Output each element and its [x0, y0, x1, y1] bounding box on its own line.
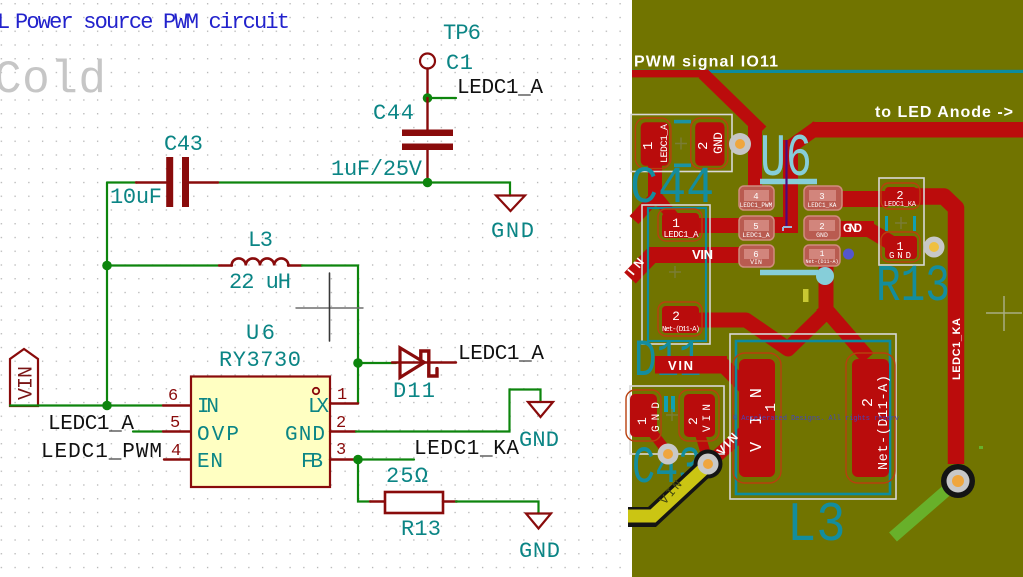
svg-text:Net-(D11-A): Net-(D11-A)	[805, 259, 838, 265]
svg-text:1uF/25V: 1uF/25V	[331, 157, 423, 182]
D11 pad 2 clearance	[658, 302, 702, 336]
trace U6 pad5 riser to anode	[770, 217, 798, 233]
svg-text:2: 2	[696, 142, 712, 150]
L3 pad 2 clearance	[846, 353, 895, 483]
trace Y right to D11 pad1	[656, 196, 674, 218]
svg-text:LX: LX	[308, 396, 329, 419]
via A	[658, 444, 679, 465]
ground GND2 symbol	[528, 402, 553, 417]
svg-text:4: 4	[171, 442, 181, 461]
junction diode tap	[353, 358, 363, 368]
svg-text:2: 2	[672, 309, 680, 324]
wire L3 right down to LX	[302, 266, 358, 404]
capacitor C43 left pin	[136, 181, 166, 183]
svg-text:Power source PWM circuit: Power source PWM circuit	[15, 10, 290, 35]
C44 pad 1 clearance	[635, 118, 671, 169]
svg-text:GND: GND	[519, 428, 559, 453]
L3 fab outline	[736, 341, 890, 494]
resistor R13 left pin	[370, 500, 385, 502]
via B black ring	[694, 450, 723, 479]
svg-text:L3: L3	[787, 493, 845, 557]
yellow trace VIN	[628, 463, 710, 516]
svg-text:2: 2	[819, 222, 824, 232]
svg-text:R13: R13	[401, 517, 441, 542]
svg-text:LEDC1_PWM: LEDC1_PWM	[41, 441, 162, 464]
svg-text:LEDC1_A: LEDC1_A	[742, 232, 769, 239]
wire to diode anode	[358, 362, 396, 364]
C44 pad 1	[641, 122, 669, 166]
R13 pad 1	[885, 236, 917, 259]
trace Y left exit	[634, 196, 656, 220]
svg-text:Cold: Cold	[0, 54, 106, 106]
trace D11 pad1 to U6 pad5	[690, 218, 750, 233]
trace LX to L3 pad2	[822, 305, 868, 358]
svg-text:to LED Anode ->: to LED Anode ->	[875, 104, 1013, 121]
trace LX net V to D11 pad2	[701, 266, 826, 349]
D11 pad 1 clearance	[658, 209, 702, 241]
trace PWM vertical to pad4	[748, 124, 762, 198]
svg-text:LEDC1_A: LEDC1_A	[664, 230, 700, 240]
trace green bottom right	[893, 477, 962, 537]
component U6 body	[191, 377, 330, 488]
trace R13 pad2 to LEDC1_KA drop	[912, 197, 956, 465]
cursor crosshair	[296, 307, 363, 309]
pin 5 line	[163, 430, 191, 432]
svg-text:R13: R13	[876, 258, 950, 317]
capacitor C44 bottom pin	[426, 150, 428, 183]
svg-text:TP6: TP6	[443, 21, 481, 46]
diode D11 lead line	[392, 361, 456, 363]
trace PWM top band	[632, 70, 708, 77]
svg-text:3: 3	[336, 441, 346, 460]
svg-text:VIN: VIN	[668, 358, 693, 373]
junction at TP6	[423, 93, 433, 103]
testpoint pin	[426, 69, 428, 99]
U6 pad 1	[804, 245, 840, 266]
trace U6 pad2 GND to R13 pad1	[836, 221, 874, 237]
junction VIN	[102, 401, 112, 411]
resistor R13 right pin	[443, 500, 457, 502]
svg-text:RY3730: RY3730	[219, 348, 301, 373]
trace C43 pad1 to via A	[649, 428, 668, 453]
svg-text:VIN: VIN	[702, 404, 714, 432]
inductor L3 coils	[232, 258, 289, 265]
svg-text:GND: GND	[711, 132, 726, 154]
U6 pad 5	[739, 216, 774, 240]
svg-text:C1: C1	[446, 51, 473, 76]
junction C44 bottom	[423, 178, 433, 188]
C44 pad 2	[695, 122, 724, 166]
R13 pad 2 clearance	[881, 183, 920, 209]
pin1 indicator circle	[313, 388, 319, 394]
pin 2 line	[330, 430, 356, 432]
resistor R13 body	[385, 492, 443, 513]
svg-text:10uF: 10uF	[110, 185, 162, 210]
C43 pad 2 clearance	[679, 390, 719, 441]
R13 center cross	[895, 217, 907, 229]
L3 pad 1	[739, 359, 775, 477]
D11 pad 2	[662, 306, 699, 333]
highlight arrow	[783, 227, 792, 231]
svg-text:LEDC1_A: LEDC1_A	[458, 343, 544, 366]
svg-text:GND: GND	[491, 219, 534, 244]
diode D11 triangle	[400, 348, 424, 378]
highlight net line purple	[785, 140, 787, 228]
wire C43 right to C44 junction to GND	[218, 183, 510, 196]
footprint R13 courtyard	[879, 178, 924, 265]
C43 pad 1	[630, 394, 657, 437]
svg-text:4: 4	[753, 192, 758, 202]
svg-text:LEDC1_KA: LEDC1_KA	[951, 318, 963, 380]
yellow trace outline black	[628, 463, 710, 517]
via B	[698, 454, 719, 475]
C44 fab dashes	[674, 120, 691, 124]
trace U6 pad1 drop	[819, 262, 833, 310]
R13 pad 1 clearance	[881, 232, 920, 262]
teal bus line	[632, 70, 1023, 73]
svg-text:LEDC1_KA: LEDC1_KA	[808, 202, 837, 209]
trace VIN band to L3 pad1	[655, 356, 727, 374]
footprint C43 courtyard	[630, 386, 724, 454]
wire VIN to pin6	[10, 404, 163, 406]
svg-text:1: 1	[337, 386, 347, 405]
wire FB to label	[358, 458, 414, 460]
svg-text:VIN: VIN	[750, 259, 762, 266]
via R13	[924, 237, 945, 258]
svg-text:© Accelerated Designs. All rig: © Accelerated Designs. All rights reserv	[733, 414, 899, 423]
inductor L3 pins	[219, 264, 232, 266]
via big black ring	[941, 464, 975, 498]
D11 center cross	[669, 266, 681, 278]
svg-text:GND: GND	[519, 539, 560, 564]
svg-text:OVP: OVP	[197, 424, 239, 447]
ground GND3 symbol	[526, 514, 551, 529]
svg-text:LEDC1_A: LEDC1_A	[48, 413, 134, 436]
capacitor C44 plates	[402, 130, 453, 137]
L3 pad 2	[852, 359, 889, 477]
capacitor C43 plates	[166, 157, 173, 207]
wire stub to label	[428, 97, 457, 99]
svg-text:PWM signal IO11: PWM signal IO11	[634, 54, 778, 71]
U6 silk pin1 dot	[816, 267, 834, 285]
C43 pad 1 clearance	[626, 390, 661, 441]
wire pin5	[133, 430, 163, 432]
svg-text:LEDC1_PWM: LEDC1_PWM	[740, 202, 773, 209]
pin 3 line	[330, 458, 356, 460]
svg-text:FB: FB	[301, 451, 323, 474]
U6 pad 4	[739, 186, 774, 210]
green speck	[979, 446, 983, 449]
trace VIN band to pad6	[630, 255, 745, 278]
svg-text:5: 5	[753, 222, 758, 232]
trace PWM diagonal	[703, 74, 762, 132]
svg-text:C44: C44	[630, 159, 714, 218]
trace to LED anode band	[812, 122, 1023, 138]
C44 pad 2 clearance	[691, 118, 728, 169]
footprint U6 pads	[739, 186, 842, 267]
svg-text:L: L	[0, 10, 10, 35]
trace C43 pad2 to via B	[700, 434, 708, 461]
svg-text:2: 2	[686, 417, 701, 425]
junction at L3 left	[102, 261, 112, 271]
svg-text:3: 3	[819, 192, 824, 202]
U6 pad 3	[804, 186, 842, 210]
svg-text:D11: D11	[393, 379, 435, 404]
svg-text:LEDC1_A: LEDC1_A	[660, 124, 671, 163]
testpoint TP6 circle	[420, 54, 435, 69]
ratsnest dot blue	[843, 249, 854, 260]
svg-text:6: 6	[168, 387, 178, 406]
C43 center cross	[666, 409, 678, 421]
svg-text:IN: IN	[197, 396, 219, 419]
pcb background	[632, 0, 1023, 577]
capacitor C44 top pin	[426, 98, 428, 130]
svg-text:L3: L3	[248, 228, 273, 253]
schematic background	[0, 0, 632, 577]
pcb cursor crosshair	[986, 312, 1022, 314]
U6 pad 2	[804, 216, 840, 240]
R13 fab dashes	[885, 216, 888, 231]
svg-text:22 uH: 22 uH	[229, 270, 291, 295]
wire C43 top horizontal	[107, 181, 137, 183]
wire GND pin2	[356, 390, 541, 432]
via C44	[729, 133, 751, 155]
trace L3 pad1 to via B	[709, 432, 744, 463]
ground GND1 symbol	[496, 196, 525, 212]
U6 silk line bottom	[760, 270, 818, 276]
svg-text:1: 1	[763, 403, 780, 412]
svg-text:1: 1	[635, 417, 650, 425]
svg-text:5: 5	[170, 414, 180, 433]
footprint D11 courtyard	[642, 205, 710, 344]
U6 silk line top	[760, 179, 817, 185]
C43 pad 2	[684, 394, 715, 437]
trace C44 pad1 down	[648, 160, 662, 202]
svg-text:2: 2	[336, 414, 346, 433]
svg-text:VIN: VIN	[692, 247, 713, 262]
junction FB	[353, 455, 363, 465]
svg-text:1: 1	[641, 142, 657, 150]
footprint C44 courtyard	[631, 115, 732, 172]
wire FB down to R13	[358, 460, 371, 502]
svg-text:LEDC1_KA: LEDC1_KA	[414, 438, 519, 461]
C43 fab dashes	[664, 396, 668, 412]
C44 center cross	[675, 138, 687, 150]
D11 fab outline	[648, 208, 706, 341]
svg-text:GND: GND	[285, 424, 325, 447]
R13 pad 2	[885, 187, 917, 206]
svg-text:LEDC1_A: LEDC1_A	[457, 77, 543, 100]
svg-text:25Ω: 25Ω	[386, 464, 428, 489]
svg-text:C44: C44	[373, 101, 414, 126]
svg-text:1: 1	[820, 250, 825, 259]
svg-text:VIN: VIN	[16, 366, 39, 400]
diode D11 schottky cathode	[421, 351, 437, 376]
svg-text:GND: GND	[843, 223, 862, 235]
U6 pad 6	[739, 245, 774, 267]
svg-text:LEDC1_KA: LEDC1_KA	[884, 201, 917, 209]
svg-text:EN: EN	[197, 451, 223, 474]
pin 6 line	[163, 404, 191, 406]
yellow stub	[803, 289, 809, 302]
svg-text:GND: GND	[651, 402, 663, 432]
capacitor C43 right pin	[189, 181, 218, 183]
wire R13 to GND3	[456, 502, 539, 514]
svg-text:1: 1	[672, 216, 680, 231]
pin 4 line	[164, 458, 191, 460]
svg-text:C43: C43	[164, 132, 203, 157]
wire VIN vertical left	[106, 183, 108, 406]
svg-text:2: 2	[860, 398, 877, 407]
D11 pad 1	[662, 213, 699, 238]
pin 1 line	[330, 402, 358, 404]
hier label VIN shape	[10, 349, 38, 406]
L3 pad 1 clearance	[733, 353, 781, 483]
trace U6 pad3 to R13 pad2	[838, 191, 888, 207]
footprint L3 courtyard	[730, 334, 896, 499]
wire L3 left	[107, 264, 219, 266]
svg-text:GND: GND	[816, 232, 828, 239]
